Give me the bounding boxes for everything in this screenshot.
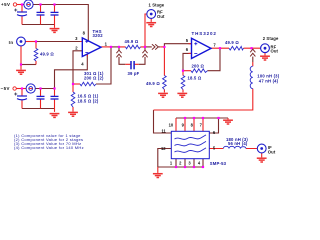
svg-text:11: 11 [162,129,167,134]
svg-text:56 nH (4): 56 nH (4) [228,141,248,146]
svg-text:(4) Component Value for 140 M: (4) Component Value for 140 MHz [14,145,84,150]
svg-text:Out: Out [268,150,276,155]
svg-text:3202: 3202 [93,33,104,38]
svg-text:200 Ω: 200 Ω [192,63,205,68]
svg-text:39 pF: 39 pF [128,71,140,76]
svg-text:18.5 Ω (2): 18.5 Ω (2) [78,98,99,103]
svg-text:49.9 Ω: 49.9 Ω [146,81,160,86]
svg-text:+5V: +5V [1,2,10,7]
svg-text:1 Stage: 1 Stage [149,2,165,7]
svg-text:49.9 Ω: 49.9 Ω [125,39,139,44]
svg-text:In: In [9,40,14,45]
svg-text:2 Stage: 2 Stage [263,36,279,41]
svg-text:SMP-53: SMP-53 [210,161,227,166]
svg-text:Out: Out [271,49,279,54]
svg-text:12: 12 [161,146,166,151]
svg-text:18.5 Ω: 18.5 Ω [188,76,202,81]
svg-text:47 nH (4): 47 nH (4) [259,78,279,83]
svg-text:200 Ω (2): 200 Ω (2) [84,76,104,81]
svg-text:Out: Out [157,14,165,19]
svg-text:10: 10 [169,122,174,127]
svg-text:49.9 Ω: 49.9 Ω [225,40,239,45]
svg-text:−5V: −5V [1,86,10,91]
svg-text:THS3202: THS3202 [192,31,217,36]
svg-text:49.9 Ω: 49.9 Ω [40,52,54,57]
